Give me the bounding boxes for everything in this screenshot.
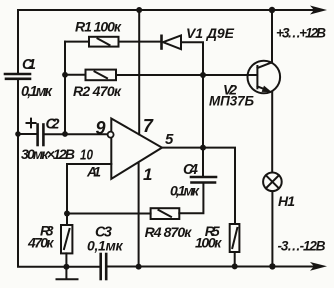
- svg-text:1: 1: [143, 165, 152, 184]
- svg-text:-3…-12В: -3…-12В: [278, 239, 326, 254]
- svg-text:0,1мк: 0,1мк: [170, 183, 200, 199]
- svg-text:5: 5: [165, 131, 174, 148]
- svg-text:0,1мк: 0,1мк: [87, 238, 123, 254]
- svg-text:470к: 470к: [27, 235, 54, 251]
- svg-text:R1 100к: R1 100к: [75, 19, 122, 35]
- svg-text:А1: А1: [86, 164, 101, 180]
- svg-text:Н1: Н1: [278, 193, 295, 209]
- svg-text:R2 470к: R2 470к: [73, 83, 122, 99]
- svg-text:100к: 100к: [195, 235, 222, 251]
- svg-text:9: 9: [96, 118, 106, 138]
- svg-text:R4 870к: R4 870к: [145, 224, 193, 240]
- svg-text:С4: С4: [183, 162, 198, 178]
- svg-text:С2: С2: [46, 117, 60, 133]
- svg-text:7: 7: [143, 116, 154, 136]
- svg-text:+3…+12В: +3…+12В: [276, 26, 326, 41]
- svg-text:10: 10: [80, 147, 94, 164]
- svg-text:МП37Б: МП37Б: [209, 94, 254, 109]
- svg-text:0,1мк: 0,1мк: [21, 84, 53, 100]
- svg-text:С1: С1: [22, 57, 36, 73]
- svg-text:V1 Д9Е: V1 Д9Е: [186, 25, 235, 41]
- svg-text:30мк×12В: 30мк×12В: [21, 146, 75, 162]
